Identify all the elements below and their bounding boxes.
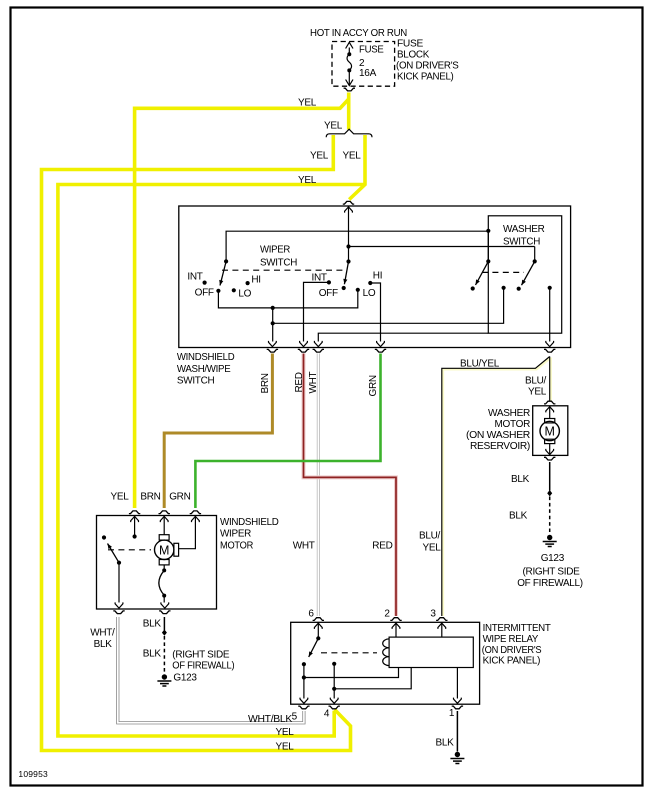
dashed link (park switch) [108, 549, 151, 551]
wire: feed across to left wiper switch [226, 231, 488, 261]
svg-text:RED: RED [372, 541, 392, 552]
svg-text:WIPER: WIPER [260, 245, 290, 256]
wire BLK washer motor to ground G123 [549, 462, 551, 491]
wire YEL splice right branch to wash/wipe switch [349, 135, 365, 200]
svg-text:(ON WASHER: (ON WASHER [466, 430, 530, 441]
svg-text:WHT: WHT [293, 541, 315, 552]
svg-text:WASH/WIPE: WASH/WIPE [177, 364, 231, 375]
svg-text:SWITCH: SWITCH [503, 237, 540, 248]
svg-text:OFF: OFF [195, 288, 214, 299]
svg-text:INTERMITTENT: INTERMITTENT [483, 623, 551, 634]
connector pin 4 [330, 698, 338, 704]
washer switch middle contact [502, 286, 506, 290]
svg-text:MOTOR: MOTOR [220, 541, 253, 552]
svg-text:YEL: YEL [275, 742, 294, 753]
INT contact (left) [203, 281, 207, 285]
connector below washer motor [544, 457, 555, 460]
svg-text:INT: INT [312, 273, 327, 284]
connector GRN out [377, 341, 385, 347]
wire BLU/YEL tap down [549, 288, 551, 342]
svg-text:5: 5 [292, 712, 298, 723]
connector below fuse block [344, 88, 355, 91]
svg-text:2: 2 [384, 609, 390, 620]
svg-text:RED: RED [294, 372, 305, 392]
wire coil to pin1 [456, 668, 458, 699]
wire pin3 to coil [441, 622, 443, 637]
svg-text:MOTOR: MOTOR [495, 419, 531, 430]
connector RED out [300, 341, 308, 347]
svg-text:LO: LO [238, 288, 251, 299]
wire WHT switch to relay pin 6 [317, 354, 320, 617]
wire BLU/YEL switch to relay pin 3 [443, 358, 551, 616]
ground (washer motor) [547, 535, 552, 540]
windshield wiper motor box [97, 516, 217, 610]
svg-text:INT: INT [187, 272, 202, 283]
svg-text:OF FIREWALL): OF FIREWALL) [172, 661, 234, 672]
svg-text:BLK: BLK [511, 474, 530, 485]
svg-text:BRN: BRN [260, 373, 271, 393]
svg-text:HI: HI [251, 275, 260, 286]
dashed link (relay) [321, 652, 377, 654]
svg-text:G123: G123 [173, 673, 197, 684]
svg-text:WIPE RELAY: WIPE RELAY [483, 634, 539, 645]
wire BRN switch to wiper motor [164, 354, 272, 509]
svg-text:BLK: BLK [94, 639, 113, 650]
junction: feed to washer switch line [346, 244, 350, 248]
svg-text:109953: 109953 [18, 769, 48, 779]
svg-text:WHT/: WHT/ [90, 628, 115, 639]
coil bumps [383, 639, 389, 666]
svg-text:SWITCH: SWITCH [177, 376, 215, 387]
svg-text:6: 6 [308, 609, 314, 620]
svg-text:(RIGHT SIDE: (RIGHT SIDE [172, 650, 230, 661]
svg-text:RESERVOIR): RESERVOIR) [470, 441, 530, 452]
connector BRN into wiper motor [160, 516, 168, 522]
svg-text:WHT/BLK: WHT/BLK [248, 714, 293, 725]
connector WHT/BLK out of wiper motor [115, 602, 123, 608]
fuse F2 symbol [348, 48, 350, 54]
intermittent wipe relay box [291, 622, 480, 704]
washer switch right lower contact [548, 286, 552, 290]
LO contact (right) [356, 288, 360, 292]
wire pin4 contact down [333, 664, 335, 699]
svg-text:FUSE: FUSE [397, 39, 424, 50]
wire: WHT output run [318, 333, 488, 341]
svg-text:YEL: YEL [298, 175, 317, 186]
connector GRN into wiper motor [192, 516, 200, 522]
dashed mechanical link (wiper switch) [222, 269, 344, 271]
svg-text:4: 4 [324, 709, 330, 720]
svg-text:WINDSHIELD: WINDSHIELD [220, 517, 279, 528]
svg-text:YEL: YEL [111, 492, 130, 503]
junction BRN tap [271, 306, 275, 310]
wire down washer box edge [487, 231, 489, 261]
svg-text:OF FIREWALL): OF FIREWALL) [517, 578, 583, 589]
wire YEL branch to relay pin 4 (inner run) [58, 185, 365, 737]
ground G123 (left) [162, 674, 167, 679]
svg-text:(ON DRIVER'S: (ON DRIVER'S [396, 61, 459, 72]
wire YEL fuse branch to wiper motor [135, 99, 349, 508]
wire GRN switch to wiper motor [195, 354, 380, 509]
connector pin 1 [454, 698, 462, 704]
svg-text:LO: LO [363, 288, 376, 299]
motor M1 (wiper) [163, 516, 165, 535]
HI contact (left) [246, 281, 250, 285]
washer switch left contact + arm [486, 259, 490, 263]
washer switch inner box [488, 216, 561, 333]
ground (relay pin 1) [455, 752, 460, 757]
relay switch [317, 622, 319, 638]
connector BLU/YEL into washer motor [544, 401, 555, 404]
junction on washer box edge [486, 229, 490, 233]
wire BLK relay pin 1 to ground [456, 711, 458, 752]
INT contact (right) [327, 280, 331, 284]
wire pin2 to coil [395, 622, 397, 637]
wire to washer switch right contact [349, 246, 535, 248]
svg-text:BLK: BLK [509, 511, 528, 522]
wire coil tap to pin4 line [334, 668, 411, 689]
connector BLK out of wiper motor [161, 602, 169, 608]
svg-text:KICK PANEL): KICK PANEL) [483, 656, 540, 667]
wire: BRN junction to washer switch middle contact [273, 288, 504, 324]
svg-text:YEL: YEL [422, 543, 441, 554]
connector pin 2 [392, 623, 400, 629]
svg-text:YEL: YEL [528, 387, 547, 398]
connector WHT out [314, 341, 322, 347]
svg-text:BLU/: BLU/ [525, 376, 547, 387]
wiper switch (left half) [224, 259, 228, 263]
svg-text:HOT IN ACCY OR RUN: HOT IN ACCY OR RUN [310, 28, 407, 39]
svg-text:1: 1 [449, 708, 455, 719]
svg-text:GRN: GRN [368, 375, 379, 396]
wiper motor park switch [134, 516, 136, 535]
fuse block dashed box [332, 42, 395, 87]
wire: feed into wiper switch [348, 206, 350, 262]
svg-text:(ON DRIVER'S: (ON DRIVER'S [482, 645, 542, 656]
wire WHT/BLK wiper motor to relay pin 5 [118, 617, 304, 723]
connector YEL into wiper motor [131, 516, 139, 522]
svg-text:BLK: BLK [435, 738, 454, 749]
svg-text:YEL: YEL [275, 727, 294, 738]
svg-text:3: 3 [430, 609, 436, 620]
svg-text:G123: G123 [541, 553, 565, 564]
splice brace (YEL splits in two) [326, 129, 372, 137]
svg-text:KICK PANEL): KICK PANEL) [397, 72, 454, 83]
wire BLU/YEL switch to washer motor [550, 358, 552, 401]
wire RED switch to relay pin 2 [304, 354, 397, 617]
washer switch right contact + arm [533, 259, 537, 263]
svg-text:BRN: BRN [140, 492, 160, 503]
connector pin 5 [300, 698, 308, 704]
relay coil U1 [389, 637, 473, 667]
motor M2 (washer) [549, 406, 551, 419]
splice on BLK (wiper motor ground) [162, 629, 167, 635]
svg-text:BLK: BLK [143, 619, 162, 630]
connector BRN out [269, 341, 277, 347]
wire BLK wiper motor to ground G123 [163, 617, 165, 630]
svg-text:HI: HI [373, 271, 382, 282]
svg-text:BLU/: BLU/ [419, 531, 441, 542]
wire pin5 contact down [303, 664, 305, 698]
svg-text:M: M [159, 543, 169, 557]
HI contact (right) [368, 281, 372, 285]
svg-text:WINDSHIELD: WINDSHIELD [177, 352, 235, 363]
svg-text:FUSE: FUSE [359, 45, 384, 56]
connector: YEL into wash/wipe switch [345, 207, 353, 213]
wire BRN tap down [272, 308, 274, 342]
svg-text:M: M [544, 425, 554, 439]
svg-text:BLU/YEL: BLU/YEL [460, 359, 500, 370]
wiper switch (right half) [346, 259, 350, 263]
washer motor box [533, 406, 568, 456]
wire: HI to GRN output [370, 283, 380, 342]
wire YEL splice left branch to relay pin 4 (outer run) [42, 135, 351, 751]
svg-text:YEL: YEL [324, 121, 343, 132]
windshield wash/wipe switch box [179, 206, 571, 348]
svg-text:GRN: GRN [169, 492, 190, 503]
svg-text:YEL: YEL [298, 98, 317, 109]
LO contact (left) [232, 288, 236, 292]
dashed mechanical link (washer switch) [482, 271, 524, 273]
svg-text:16A: 16A [359, 68, 377, 79]
splice on BLK (washer motor ground) [547, 490, 552, 496]
svg-text:SWITCH: SWITCH [260, 258, 297, 269]
connector pin 3 [438, 623, 446, 629]
svg-text:OFF: OFF [319, 288, 338, 299]
svg-text:(RIGHT SIDE: (RIGHT SIDE [523, 567, 581, 578]
thermal element below motor [163, 565, 165, 570]
wire GRN input to motor brush [179, 516, 196, 549]
junction BRN / washer feed [271, 321, 275, 325]
svg-text:BLK: BLK [143, 649, 162, 660]
svg-text:WIPER: WIPER [220, 529, 251, 540]
wire YEL from fuse to splice [347, 93, 351, 130]
wire: INT to RED output [304, 282, 329, 341]
svg-text:YEL: YEL [343, 151, 362, 162]
connector pin 6 [314, 623, 322, 629]
svg-text:BLOCK: BLOCK [397, 50, 430, 61]
wire coil tap to pin5 line [304, 668, 399, 678]
svg-text:WHT: WHT [308, 371, 319, 393]
connector BLU/YEL out [546, 341, 554, 347]
svg-text:YEL: YEL [310, 151, 329, 162]
svg-text:WASHER: WASHER [488, 408, 530, 419]
wire: left arm to right LO [218, 290, 357, 308]
svg-text:WASHER: WASHER [503, 224, 545, 235]
